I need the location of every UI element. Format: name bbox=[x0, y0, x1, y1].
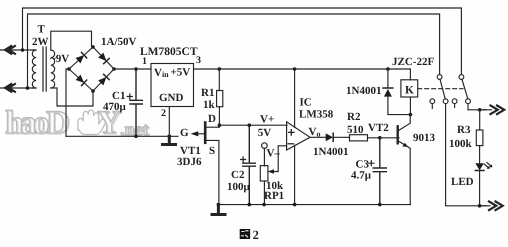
svg-text:T: T bbox=[38, 24, 46, 36]
wire: drain node to op-amp +input bbox=[219, 124, 287, 126]
terminal: 5V reference bbox=[262, 143, 268, 149]
wire: switch2 NO to output top line bbox=[468, 104, 486, 110]
node: RP1 bottom junction bbox=[262, 203, 266, 207]
wire: bridge plus to 7805 Vin bbox=[114, 68, 151, 70]
relay contact switch 2: common terminal bbox=[459, 75, 464, 80]
svg-text:1N4001: 1N4001 bbox=[313, 146, 348, 158]
resistor R2 510 bbox=[350, 135, 368, 141]
node: collector / relay / diode junction bbox=[409, 113, 413, 117]
svg-text:LM358: LM358 bbox=[299, 108, 334, 120]
relay contact switch 1: common terminal bbox=[437, 75, 442, 80]
relay mechanical dashed link bbox=[418, 88, 463, 90]
transformer T core bbox=[43, 47, 46, 91]
svg-text:2: 2 bbox=[253, 228, 259, 242]
wire: RP1 bottom to ground rail bbox=[263, 181, 265, 205]
node: op-amp supply junction bbox=[293, 67, 297, 71]
svg-text:V+: V+ bbox=[260, 114, 274, 126]
node: C3 tap junction bbox=[378, 136, 382, 140]
bridge diode D2 (top-right edge) bbox=[98, 52, 109, 63]
resistor R1 1k bbox=[218, 69, 220, 91]
svg-text:1k: 1k bbox=[203, 99, 216, 111]
node: R1 top junction bbox=[218, 67, 222, 71]
label C1 plus bbox=[127, 94, 132, 99]
label C3 plus bbox=[369, 161, 374, 166]
svg-text:VT2: VT2 bbox=[368, 122, 389, 134]
node: junction of input line1 with top rail bbox=[21, 48, 25, 52]
svg-text:C2: C2 bbox=[231, 169, 245, 181]
svg-text:4.7μ: 4.7μ bbox=[351, 170, 372, 182]
svg-text:D: D bbox=[208, 113, 216, 125]
node: C3 bottom junction bbox=[378, 203, 382, 207]
node: bridge corners bbox=[67, 45, 116, 93]
relay contact switch 2: NO terminal bbox=[466, 99, 471, 104]
bridge diode D4 (bottom-right edge) bbox=[98, 74, 109, 85]
node: C2 tap junction bbox=[248, 123, 252, 127]
svg-text:100k: 100k bbox=[449, 138, 473, 150]
svg-text:2: 2 bbox=[161, 108, 166, 119]
svg-text:R2: R2 bbox=[347, 111, 361, 123]
node: flyback diode top junction bbox=[386, 67, 390, 71]
svg-text:+5V: +5V bbox=[171, 67, 191, 79]
potentiometer RP1 wiper arrow bbox=[274, 146, 287, 172]
FET VT1 gate lead with arrow bbox=[198, 133, 204, 135]
bridge diode D3 (bottom-left edge) bbox=[75, 74, 86, 85]
svg-text:1: 1 bbox=[142, 56, 147, 67]
svg-text:JZC-22F: JZC-22F bbox=[392, 56, 434, 68]
svg-text:LM7805CT: LM7805CT bbox=[140, 46, 198, 58]
capacitor C3 4.7u bbox=[373, 138, 386, 205]
svg-text:Vo: Vo bbox=[309, 126, 321, 139]
wire: +5V rail from 7805 pin3 to relay coil bbox=[194, 69, 411, 80]
capacitor C1 470u bbox=[130, 69, 142, 136]
svg-text:G: G bbox=[180, 127, 189, 139]
node: junction of input line2 with top rail bbox=[26, 86, 30, 90]
node: drain node (R1 bottom) bbox=[218, 123, 222, 127]
node: LED bottom junction bbox=[478, 204, 482, 208]
diode 1N4001 (output) bbox=[326, 133, 333, 141]
wire: 5V terminal to RP1 top bbox=[263, 148, 265, 166]
wire: bridge minus down to ground bus bbox=[66, 69, 69, 136]
wire: relay coil bottom to collector node bbox=[409, 97, 411, 115]
node: C1 top junction bbox=[134, 67, 138, 71]
wire: bottom ground rail bbox=[218, 204, 410, 206]
op-amp minus input sign bbox=[288, 143, 293, 145]
wire: 7805 GND pin down to ground bus bbox=[168, 107, 170, 137]
svg-text:9013: 9013 bbox=[413, 132, 436, 144]
relay contact switch 1: NO terminal bbox=[443, 99, 448, 104]
transformer T secondary winding bbox=[51, 50, 55, 88]
wire: ground bus (left section) bbox=[66, 135, 178, 137]
svg-text:2W: 2W bbox=[32, 36, 49, 48]
node: op-amp ground junction bbox=[293, 203, 297, 207]
svg-text:R3: R3 bbox=[457, 124, 471, 136]
svg-text:K: K bbox=[405, 85, 414, 97]
FET VT1 drain lead bbox=[206, 126, 219, 128]
wire: R2 to VT2 base bbox=[368, 137, 400, 139]
node: pin2 junction on ground bus bbox=[168, 135, 172, 139]
watermark haoDIY.net bbox=[6, 106, 149, 142]
transformer T primary winding bbox=[32, 50, 36, 88]
FET VT1 source lead bbox=[206, 140, 219, 204]
label C2 plus bbox=[241, 157, 246, 162]
svg-text:S: S bbox=[209, 145, 215, 157]
relay contact switch 2: arm bbox=[462, 79, 468, 99]
node: C1 bottom junction on ground bus bbox=[134, 135, 138, 139]
svg-text:V–: V– bbox=[267, 148, 281, 160]
transistor VT2 collector bbox=[399, 115, 411, 131]
svg-text:3DJ6: 3DJ6 bbox=[177, 156, 202, 168]
wire: secondary bottom to bridge bottom corner bbox=[51, 88, 93, 106]
wire: diode to R2 bbox=[334, 136, 350, 139]
node: C2 bottom junction bbox=[248, 203, 252, 207]
FET VT1 3DJ6 channel bar bbox=[204, 123, 207, 143]
wire: AC input line 1 (outer top rail) bbox=[23, 8, 462, 75]
resistor R3 100k bbox=[479, 110, 481, 130]
svg-text:~9V: ~9V bbox=[50, 53, 69, 65]
transistor VT2 emitter with arrow bbox=[399, 141, 411, 204]
flyback diode 1N4001 (relay) bbox=[388, 69, 411, 115]
wire: op-amp ground pin to rail bbox=[294, 145, 296, 204]
op-amp U2 LM358 triangle bbox=[287, 122, 310, 150]
svg-text:1N4001: 1N4001 bbox=[346, 85, 381, 97]
relay contact switch 1: arm bbox=[440, 79, 445, 99]
relay contact switch 1: NC terminal bbox=[430, 99, 435, 104]
op-amp plus input sign bbox=[289, 130, 294, 135]
svg-text:3: 3 bbox=[196, 55, 201, 66]
svg-text:1A/50V: 1A/50V bbox=[101, 36, 137, 48]
wire: switch1 NO to output bottom line bbox=[446, 104, 486, 206]
svg-text:LED: LED bbox=[451, 176, 474, 188]
capacitor C2 100u bbox=[243, 125, 256, 204]
LED emission arrows bbox=[484, 163, 490, 168]
svg-text:470μ: 470μ bbox=[103, 101, 127, 113]
svg-text:5V: 5V bbox=[258, 127, 272, 139]
svg-text:100μ: 100μ bbox=[227, 181, 251, 193]
svg-text:Vin: Vin bbox=[154, 67, 169, 79]
svg-text:IC: IC bbox=[300, 97, 312, 109]
caption 图2 bbox=[240, 229, 250, 239]
bridge diode D1 (left-top edge) bbox=[75, 52, 86, 63]
svg-text:RP1: RP1 bbox=[264, 190, 284, 202]
AC input terminal arrows (left) bbox=[0, 49, 34, 51]
regulator U1 LM7805CT box bbox=[151, 64, 194, 107]
wire: op-amp output to diode bbox=[310, 136, 326, 138]
node: R3 top junction bbox=[478, 108, 482, 112]
relay K coil box JZC-22F bbox=[401, 80, 418, 97]
svg-text:R1: R1 bbox=[201, 87, 214, 99]
svg-text:haoD: haoD bbox=[5, 105, 69, 141]
transistor VT2 base bar bbox=[397, 126, 399, 143]
wire: secondary top to bridge top corner bbox=[51, 31, 92, 50]
wire: op-amp V+ supply from rail bbox=[294, 69, 296, 127]
LED indicator bbox=[475, 163, 484, 170]
ground symbol (bottom rail) bbox=[212, 205, 225, 215]
svg-text:510: 510 bbox=[347, 124, 364, 136]
relay contact switch 2: NC terminal bbox=[452, 99, 457, 104]
ground symbol (left) bbox=[163, 136, 176, 144]
node: source junction on rail bbox=[217, 203, 221, 207]
svg-text:GND: GND bbox=[159, 92, 184, 104]
wire: AC input line 2 (inner top rail) bbox=[28, 14, 440, 88]
potentiometer RP1 10k body bbox=[260, 166, 268, 181]
bridge rectifier edges bbox=[69, 47, 114, 91]
AC output arrows (right) bbox=[480, 109, 492, 111]
